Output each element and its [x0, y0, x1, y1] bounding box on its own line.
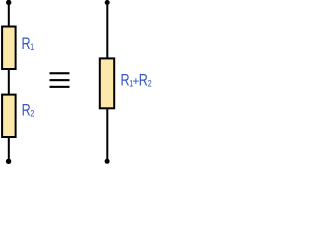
svg-text:R: R: [22, 102, 31, 120]
svg-text:R: R: [22, 36, 31, 54]
svg-text:R: R: [139, 72, 148, 90]
svg-text:2: 2: [148, 79, 153, 89]
svg-text:1: 1: [30, 42, 35, 52]
svg-text:2: 2: [30, 109, 35, 119]
svg-text:R: R: [121, 72, 130, 90]
